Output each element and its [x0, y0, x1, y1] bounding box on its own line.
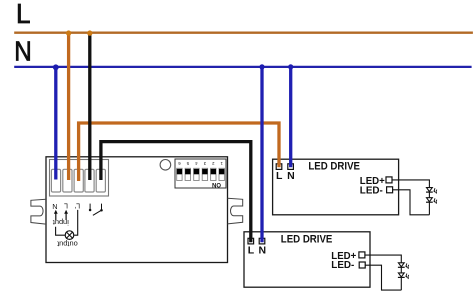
- svg-text:L: L: [248, 244, 255, 256]
- LED D3: [398, 263, 409, 269]
- wire L bus: [14, 32, 473, 34]
- wire N bus to sensor N terminal (blue): [54, 67, 57, 180]
- pin L U1: [276, 164, 282, 170]
- svg-text:N: N: [52, 202, 57, 211]
- wire N bus: [14, 66, 471, 68]
- LED D1: [426, 188, 437, 194]
- pin N U1: [288, 164, 294, 170]
- svg-text:LED-: LED-: [360, 185, 383, 197]
- wire L bus to sensor switch terminal (black): [88, 33, 91, 180]
- wire LED+ loop U2: [365, 255, 401, 290]
- wire L bus to sensor L terminal (orange): [67, 33, 70, 180]
- mounting ear right: [228, 198, 243, 224]
- svg-text:output: output: [57, 240, 78, 249]
- svg-text:L: L: [64, 201, 68, 210]
- mounting ear left: [31, 199, 46, 224]
- pin LED+ U2: [359, 252, 365, 258]
- wire LED+ loop U1: [392, 180, 430, 215]
- svg-text:L: L: [276, 170, 283, 182]
- pin LED+ U1: [386, 177, 392, 183]
- wire LED- loop U2: [365, 265, 401, 290]
- wire LED- loop U1: [392, 190, 429, 215]
- wire N bus to U1 (blue): [289, 67, 292, 167]
- svg-text:input: input: [53, 218, 69, 227]
- svg-text:LED-: LED-: [331, 259, 354, 271]
- svg-text:L: L: [16, 0, 31, 29]
- node L junction 1: [66, 30, 71, 35]
- svg-text:ON: ON: [212, 181, 221, 187]
- input arrow 1: [54, 210, 58, 220]
- node N junction 2: [259, 64, 264, 69]
- pin L U2: [248, 238, 254, 244]
- svg-text:N: N: [14, 36, 32, 67]
- terminal block: [50, 160, 109, 197]
- wire N bus to U2 (blue): [260, 67, 263, 242]
- sensor module U3 body: [46, 157, 228, 263]
- wire sensor L' output to U1 (orange): [79, 123, 279, 181]
- terminal slot 2: [63, 169, 72, 192]
- pin LED- U1: [387, 187, 393, 193]
- terminal slot 3: [74, 169, 83, 192]
- input arrow 2: [64, 210, 68, 220]
- svg-text:L': L': [74, 201, 80, 210]
- wire lamp left: [56, 227, 65, 235]
- pin LED- U2: [359, 262, 365, 268]
- node N junction 1: [53, 64, 59, 70]
- pin N U2: [259, 238, 265, 244]
- LED D2: [426, 198, 437, 204]
- svg-text:N: N: [287, 170, 295, 182]
- lamp symbol: [65, 231, 74, 240]
- wire sensor switched output to U2 (black): [101, 142, 251, 243]
- terminal slot 1: [51, 169, 60, 192]
- terminal slot 5: [96, 169, 105, 192]
- svg-text:LED DRIVE: LED DRIVE: [281, 233, 333, 245]
- svg-text:LED DRIVE: LED DRIVE: [308, 160, 360, 172]
- LED D4: [398, 273, 409, 279]
- node L junction 2: [87, 30, 92, 35]
- svg-text:N: N: [259, 244, 267, 256]
- node N junction 3: [288, 64, 293, 69]
- wire lamp right: [74, 210, 78, 235]
- DIP switch S1: [175, 159, 226, 188]
- indicator hole: [160, 160, 171, 171]
- relay switch symbol: [89, 204, 103, 216]
- terminal slot 4: [85, 169, 94, 192]
- LED driver U2 body: [244, 232, 370, 287]
- LED driver U1 body: [273, 159, 399, 215]
